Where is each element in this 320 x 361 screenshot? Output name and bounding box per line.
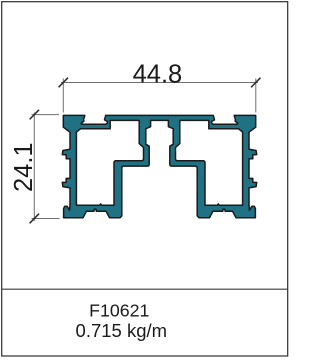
tick bottom (24.1): [30, 214, 39, 224]
dimension line 44.8: [61, 82, 258, 84]
svg-text:F10621: F10621: [89, 300, 149, 320]
separator line: [2, 288, 288, 290]
extension line left (44.8): [62, 79, 64, 113]
extension line bottom (24.1): [32, 218, 60, 220]
tick top (24.1): [30, 110, 39, 120]
dimension line 24.1: [33, 113, 35, 222]
tick right (44.8): [251, 78, 260, 88]
svg-text:44.8: 44.8: [133, 60, 183, 88]
svg-text:0.715 kg/m: 0.715 kg/m: [76, 320, 168, 341]
aluminium extrusion profile cross-section F10621 (teal fill, two top slots, centre screw channel, side hooks, bottom notches): [62, 115, 256, 217]
svg-text:24.1: 24.1: [10, 142, 38, 192]
tick left (44.8): [59, 78, 68, 88]
extension line top (24.1): [32, 114, 60, 116]
extension line right (44.8): [255, 79, 257, 113]
